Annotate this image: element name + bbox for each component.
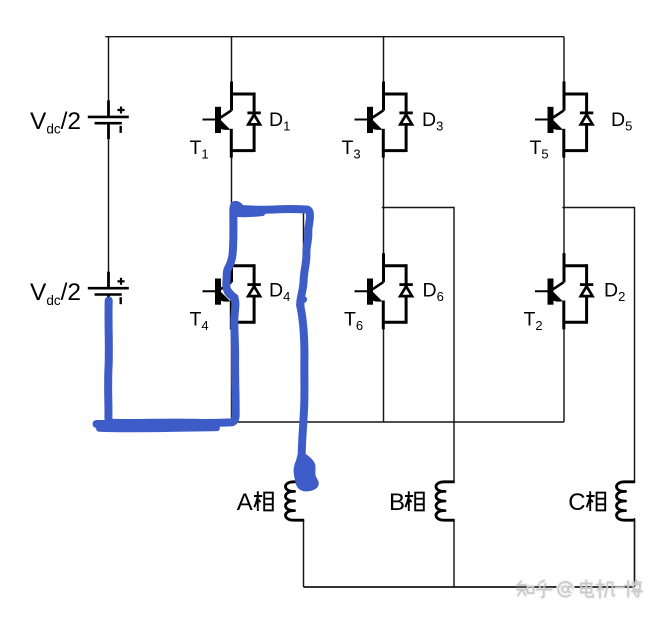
wire neutral bottom bus xyxy=(304,586,635,588)
wire inductor A bottom xyxy=(303,520,305,587)
wire leg C upper xyxy=(563,37,565,82)
diode D3 xyxy=(383,93,413,153)
wire bottom DC bus xyxy=(109,421,565,423)
battery V2 Vdc/2 xyxy=(88,272,129,311)
svg-text:B: B xyxy=(389,489,405,516)
wire leg B upper xyxy=(383,37,385,82)
wire phase C tap xyxy=(562,208,634,483)
transistor T1 xyxy=(203,82,232,158)
blue path bottom stroke second pass xyxy=(99,428,217,429)
transistor T6 xyxy=(355,253,384,329)
blue path left overshoot of bottom stroke xyxy=(97,420,131,428)
wire leg A lower xyxy=(231,329,233,422)
wire bottom bus redraw through watermark xyxy=(304,518,635,587)
inductor phase A xyxy=(286,482,305,520)
diode D2 xyxy=(563,264,593,324)
wire leg B middle xyxy=(383,158,385,254)
diode D1 xyxy=(231,93,261,153)
wire inductor C bottom xyxy=(634,520,636,587)
diode D5 xyxy=(563,93,593,153)
wire phase A tap xyxy=(230,208,304,483)
wire inductor B bottom xyxy=(453,520,455,587)
battery V1 Vdc/2 xyxy=(88,100,129,139)
wire leg C lower xyxy=(563,329,565,422)
transistor T4 xyxy=(203,253,232,329)
wire phase B tap xyxy=(382,208,454,483)
blue path top stroke second pass xyxy=(233,213,263,214)
diode D4 xyxy=(231,264,261,324)
blue path end scribble blob xyxy=(294,453,319,491)
inductor phase C xyxy=(617,482,636,520)
diode D6 xyxy=(383,264,413,324)
svg-text:A: A xyxy=(237,489,253,516)
transistor T5 xyxy=(535,82,564,158)
wire top DC bus xyxy=(105,36,564,38)
watermark 知乎 @电机-博 xyxy=(304,518,643,598)
transistor T3 xyxy=(355,82,384,158)
wire leg B lower xyxy=(383,329,385,422)
wire battery column lower xyxy=(108,299,110,422)
wire leg A upper xyxy=(231,37,233,82)
wire battery column upper xyxy=(108,37,110,101)
svg-text:C: C xyxy=(568,489,585,516)
wire leg C middle xyxy=(563,158,565,254)
blue path wiggle at phase-A drop xyxy=(300,299,304,305)
blue path wiggle at T4 xyxy=(228,292,235,298)
blue current path xyxy=(108,205,310,457)
wire leg A middle xyxy=(231,158,233,254)
transistor T2 xyxy=(535,253,564,329)
inductor phase B xyxy=(436,482,455,520)
wire between batteries xyxy=(108,140,110,273)
